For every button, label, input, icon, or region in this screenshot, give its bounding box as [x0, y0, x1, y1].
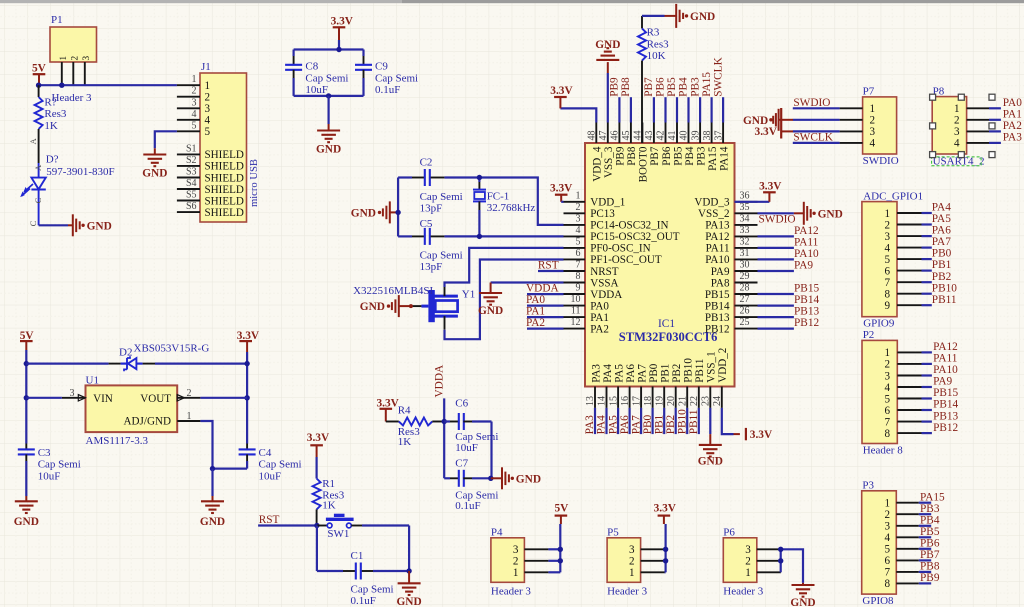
svg-text:PB1: PB1	[660, 364, 672, 383]
junction ADJ/GND node	[210, 466, 215, 471]
svg-text:5V: 5V	[555, 503, 570, 515]
capacitor C8	[285, 50, 302, 96]
svg-text:J1: J1	[201, 61, 211, 73]
crystal Y1 X322516MLB4SI	[411, 287, 458, 330]
junction 3.3V/D2	[244, 361, 249, 366]
designator P6	[723, 527, 735, 539]
ground GND (C7)	[502, 467, 541, 489]
svg-text:C7: C7	[455, 457, 468, 469]
selection box USART4_2	[932, 157, 982, 166]
net label PA9 (P2 pin4)	[933, 376, 952, 388]
svg-text:7: 7	[884, 277, 890, 289]
wire Y1 top to IC1 pin5	[445, 248, 564, 287]
svg-text:4: 4	[884, 532, 890, 544]
svg-text:PA1: PA1	[590, 312, 609, 324]
svg-text:Cap Semi: Cap Semi	[351, 583, 394, 595]
svg-text:PB4: PB4	[920, 514, 940, 526]
wire PA4 stub (IC1 pin14)	[605, 408, 607, 434]
svg-text:23: 23	[701, 396, 712, 406]
svg-text:2: 2	[192, 86, 197, 97]
svg-text:X322516MLB4SI: X322516MLB4SI	[353, 285, 433, 297]
ground GND (LED)	[73, 214, 112, 236]
net label PB8 (P3 pin7)	[920, 561, 940, 573]
wire VSS_2 to GND (IC1 pin35)	[758, 212, 804, 214]
svg-text:Cap Semi: Cap Semi	[375, 72, 418, 84]
svg-text:0.1uF: 0.1uF	[351, 595, 376, 607]
svg-text:1K: 1K	[44, 120, 58, 132]
value XBS053V15R-G	[134, 343, 210, 355]
junction 5V/D2	[24, 361, 29, 366]
net label PA5 (ADC_GPIO1 pin2)	[932, 213, 951, 225]
value 13pF (C5)	[420, 261, 443, 273]
svg-text:29: 29	[740, 271, 750, 282]
wire 3.3V rail (P5)	[664, 524, 666, 572]
svg-text:9: 9	[884, 300, 890, 312]
wire PA1 stub (P8 pin2)	[989, 119, 1001, 121]
connector P5	[607, 538, 666, 583]
value Header 3 (P1)	[52, 92, 93, 104]
net label PA7	[630, 415, 642, 434]
wire C6 right leg	[490, 422, 492, 479]
wire 3.3V stem to top rail	[338, 40, 340, 50]
value Cap Semi (C2)	[420, 191, 463, 203]
net label PA5	[607, 415, 619, 434]
wire PB4 stub (IC1 pin40)	[687, 97, 689, 122]
svg-text:2: 2	[187, 388, 192, 399]
svg-text:5: 5	[205, 126, 211, 138]
net label PB6	[655, 77, 667, 97]
svg-text:S2: S2	[186, 155, 197, 166]
svg-text:14: 14	[597, 396, 608, 406]
net label PB5	[666, 77, 678, 97]
net label SWCLK (P7)	[793, 131, 833, 143]
wire PA2 stub (IC1 pin12)	[527, 328, 564, 330]
svg-text:PB14: PB14	[705, 300, 730, 312]
svg-text:8: 8	[884, 289, 890, 301]
svg-text:VDDA: VDDA	[526, 283, 559, 295]
svg-text:GND: GND	[690, 11, 715, 23]
net label PA9	[794, 260, 813, 272]
svg-text:2: 2	[884, 509, 890, 521]
svg-text:PC15-OSC32_OUT: PC15-OSC32_OUT	[590, 231, 680, 243]
value Cap Semi (C6)	[455, 431, 498, 443]
wire PA3 stub (IC1 pin13)	[594, 408, 596, 434]
svg-text:GND: GND	[351, 208, 376, 220]
net label VDDA (IC1 pin9)	[526, 283, 559, 295]
svg-text:1: 1	[884, 208, 890, 220]
svg-text:VOUT: VOUT	[140, 393, 171, 405]
designator R?	[44, 96, 56, 108]
svg-text:4: 4	[884, 382, 890, 394]
svg-text:PB11: PB11	[694, 359, 706, 383]
svg-text:41: 41	[667, 131, 678, 141]
svg-text:3: 3	[70, 388, 75, 399]
value USART4_2 (P8)	[933, 155, 985, 167]
svg-text:9: 9	[576, 283, 581, 294]
svg-text:PB2: PB2	[665, 414, 677, 434]
svg-text:PB8: PB8	[626, 146, 638, 166]
svg-text:PA15: PA15	[701, 72, 713, 97]
svg-text:GND: GND	[396, 596, 421, 607]
svg-text:3: 3	[745, 544, 751, 556]
svg-text:2: 2	[870, 115, 876, 127]
ground GND (OSC32)	[351, 201, 398, 223]
junction 5V/VIN	[24, 395, 29, 400]
svg-text:34: 34	[740, 214, 750, 225]
svg-text:3: 3	[870, 126, 876, 138]
designator C8	[305, 61, 318, 73]
svg-text:PB5: PB5	[920, 526, 940, 538]
designator J1	[201, 61, 211, 73]
svg-text:1: 1	[954, 103, 960, 115]
svg-text:PA3: PA3	[1003, 132, 1022, 144]
designator P2	[863, 329, 875, 341]
svg-text:micro USB: micro USB	[249, 159, 260, 207]
net label PB11	[688, 410, 700, 435]
svg-text:11: 11	[571, 306, 581, 317]
svg-text:PA9: PA9	[933, 376, 952, 388]
svg-text:13: 13	[585, 396, 596, 406]
net label PA6	[619, 415, 631, 434]
svg-text:P3: P3	[862, 479, 874, 491]
power port 3.3V (IC1 pin48)	[550, 85, 596, 122]
svg-text:5V: 5V	[32, 63, 47, 75]
svg-text:19: 19	[654, 396, 665, 406]
svg-text:3.3V: 3.3V	[750, 429, 773, 441]
svg-text:ADJ/GND: ADJ/GND	[124, 416, 171, 428]
value 0.1uF (C1)	[351, 595, 376, 607]
svg-text:Cap Semi: Cap Semi	[259, 459, 302, 471]
wire bottom rail C8-C9	[294, 95, 364, 97]
svg-text:4: 4	[192, 109, 197, 120]
resistor R?	[35, 85, 43, 163]
net label SWDIO (IC1 pin34)	[759, 213, 796, 225]
svg-text:1: 1	[576, 190, 581, 201]
capacitor C5	[412, 228, 444, 245]
net label PA0 (P8)	[1003, 97, 1022, 109]
junction P5 pin2	[663, 558, 668, 563]
wire VSSA to GND (IC1 pin8)	[491, 283, 564, 294]
net label PB3 (P3 pin2)	[920, 503, 940, 515]
svg-text:39: 39	[690, 131, 701, 141]
value Res3 (R4)	[398, 426, 421, 438]
designator C7	[455, 457, 468, 469]
svg-text:VSS_1: VSS_1	[706, 351, 718, 382]
svg-text:Res3: Res3	[647, 38, 670, 50]
svg-text:PB15: PB15	[794, 283, 819, 295]
resistor R3	[638, 16, 646, 143]
svg-text:35: 35	[740, 202, 750, 213]
svg-text:2: 2	[745, 556, 751, 568]
svg-text:GND: GND	[87, 220, 112, 232]
svg-text:2: 2	[884, 219, 890, 231]
net label PB6 (P3 pin5)	[920, 537, 940, 549]
svg-text:D2: D2	[119, 347, 132, 359]
svg-text:PA10: PA10	[794, 248, 819, 260]
svg-text:PC14-OSC32_IN: PC14-OSC32_IN	[590, 220, 668, 232]
svg-text:PA1: PA1	[1003, 108, 1022, 120]
wire PA10 stub (IC1 pin31)	[758, 258, 794, 260]
svg-text:PB2: PB2	[932, 271, 952, 283]
svg-text:C3: C3	[38, 447, 51, 459]
connector P4	[491, 538, 560, 583]
svg-text:S6: S6	[186, 201, 197, 212]
svg-text:4: 4	[870, 138, 876, 150]
ground GND (IC1 VSS_1)	[698, 445, 723, 468]
svg-text:PA2: PA2	[590, 323, 609, 335]
net label PA1 (P8)	[1003, 108, 1022, 120]
svg-text:PA7: PA7	[932, 236, 951, 248]
junction FC-1 top	[477, 175, 482, 180]
connector P1	[50, 27, 97, 85]
wire PB1 stub (IC1 pin19)	[663, 408, 665, 434]
svg-text:PB13: PB13	[794, 306, 819, 318]
svg-text:PB6: PB6	[920, 537, 940, 549]
wire GND stem (U1)	[211, 469, 213, 502]
net label PB9 (P3 pin8)	[920, 572, 940, 584]
junction 3.3V/VOUT	[244, 395, 249, 400]
svg-text:6: 6	[884, 265, 890, 277]
svg-text:2: 2	[70, 56, 80, 61]
value 1K (R1)	[322, 500, 336, 512]
ground GND (P6)	[790, 585, 815, 607]
capacitor C4	[239, 444, 256, 469]
svg-text:SWDIO: SWDIO	[759, 213, 796, 225]
connector P6	[723, 538, 781, 583]
designator P8	[933, 85, 945, 97]
net label PB7	[643, 77, 655, 97]
svg-text:1: 1	[629, 567, 635, 579]
net label PB0 (ADC_GPIO1 pin5)	[932, 248, 952, 260]
svg-text:GND: GND	[360, 301, 385, 313]
value Header 8 (P2)	[863, 444, 904, 456]
wire LED cathode to GND	[39, 224, 73, 226]
svg-text:21: 21	[677, 396, 688, 406]
designator FC-1	[487, 190, 510, 202]
value 597-3901-830F	[46, 166, 114, 178]
svg-text:PF0-OSC_IN: PF0-OSC_IN	[590, 243, 650, 255]
net label PA10	[794, 248, 819, 260]
value Cap Semi (C1)	[351, 583, 394, 595]
svg-text:24: 24	[712, 396, 723, 406]
net label PA0 (IC1 pin10)	[526, 294, 545, 306]
svg-text:13pF: 13pF	[420, 261, 443, 273]
pin letter A (LED anode)	[33, 164, 43, 171]
regulator U1 AMS1117-3.3	[62, 385, 201, 432]
svg-text:1: 1	[205, 80, 211, 92]
wire PB14 stub (IC1 pin27)	[758, 305, 794, 307]
svg-text:PB6: PB6	[655, 77, 667, 97]
junction P5 pin3	[663, 547, 668, 552]
svg-text:R1: R1	[322, 478, 335, 490]
net label PB15	[794, 283, 819, 295]
junction R4/VDDA	[442, 419, 447, 424]
svg-text:PA11: PA11	[794, 237, 818, 249]
wire J1 pin5 to GND	[155, 131, 177, 154]
wire PA15 stub (IC1 pin38)	[710, 97, 712, 122]
svg-text:2: 2	[513, 556, 519, 568]
svg-text:PA12: PA12	[705, 231, 729, 243]
connector P3	[862, 491, 932, 594]
pin letter C (LED cathode)	[33, 197, 43, 203]
svg-text:U1: U1	[86, 374, 99, 386]
svg-text:SWCLK: SWCLK	[793, 131, 833, 143]
wire PB10 stub (IC1 pin21)	[686, 408, 688, 434]
svg-text:PB14: PB14	[933, 399, 958, 411]
wire PA2 stub (P8 pin3)	[989, 130, 1001, 132]
svg-text:PA3: PA3	[590, 364, 602, 383]
svg-text:GND: GND	[200, 516, 225, 528]
ground GND (Y1)	[360, 295, 413, 317]
wire ADJ/GND to GND node	[200, 421, 212, 469]
ground GND (C1)	[396, 583, 421, 607]
svg-text:VDDA: VDDA	[433, 364, 445, 397]
svg-text:C2: C2	[420, 156, 433, 168]
wire 5V to VIN	[26, 397, 62, 399]
wire SWDIO to P7 pin1	[793, 107, 840, 109]
svg-text:SHIELD: SHIELD	[205, 161, 244, 173]
svg-text:4: 4	[884, 242, 890, 254]
svg-text:Header 3: Header 3	[723, 586, 764, 598]
svg-text:7: 7	[576, 260, 581, 271]
svg-text:PA12: PA12	[794, 225, 819, 237]
svg-text:3: 3	[884, 231, 890, 243]
svg-text:42: 42	[656, 131, 667, 141]
net label PB12	[794, 317, 819, 329]
svg-text:PB0: PB0	[932, 248, 952, 260]
wire GND stem (C1)	[408, 571, 410, 583]
svg-text:5: 5	[192, 120, 197, 131]
microcontroller IC1 STM32F030CCT6	[564, 123, 758, 408]
svg-text:PB8: PB8	[620, 77, 632, 97]
wire GND stem (P6)	[802, 583, 804, 585]
net label PB2 (ADC_GPIO1 pin7)	[932, 271, 952, 283]
power port 5V (top left)	[32, 63, 47, 86]
svg-text:7: 7	[884, 567, 890, 579]
svg-text:VSS_3: VSS_3	[603, 146, 615, 178]
svg-text:3.3V: 3.3V	[331, 16, 354, 28]
svg-text:AMS1117-3.3: AMS1117-3.3	[86, 435, 149, 447]
svg-text:PB10: PB10	[676, 409, 688, 434]
designator P3	[862, 479, 874, 491]
svg-text:31: 31	[740, 248, 750, 259]
svg-text:R3: R3	[647, 27, 660, 39]
svg-text:PB2: PB2	[671, 364, 683, 383]
capacitor C7	[444, 470, 491, 487]
net label RST (SW1)	[259, 514, 280, 526]
wire PB2 stub (IC1 pin20)	[675, 408, 677, 434]
svg-text:Res3: Res3	[44, 108, 67, 120]
svg-text:PA5: PA5	[932, 213, 951, 225]
svg-text:PA5: PA5	[613, 364, 625, 383]
net label PB3	[689, 77, 701, 97]
ground GND (U1)	[200, 501, 225, 528]
net label PA1 (IC1 pin11)	[526, 306, 545, 318]
svg-text:10uF: 10uF	[259, 470, 282, 482]
svg-text:8: 8	[884, 428, 890, 440]
svg-text:PA9: PA9	[711, 266, 730, 278]
svg-text:16: 16	[620, 396, 631, 406]
pin letter C (wire end)	[28, 220, 38, 226]
svg-text:PA4: PA4	[932, 202, 951, 214]
designator SW1	[327, 528, 349, 540]
net label PB10	[676, 409, 688, 434]
svg-text:10K: 10K	[647, 50, 666, 62]
designator R1	[322, 478, 335, 490]
value 1K (R?)	[44, 120, 58, 132]
svg-text:8: 8	[884, 578, 890, 590]
svg-text:PB3: PB3	[695, 146, 707, 166]
svg-text:3.3V: 3.3V	[759, 180, 782, 192]
svg-text:NRST: NRST	[590, 266, 619, 278]
svg-text:10uF: 10uF	[305, 84, 328, 96]
svg-text:6: 6	[576, 248, 581, 259]
power port 3.3V (IC1 pin1)	[550, 183, 573, 202]
capacitor C3	[18, 444, 35, 497]
svg-text:17: 17	[631, 396, 642, 406]
value GPIO9 (ADC_GPIO1)	[863, 318, 895, 330]
junction at 5V stem	[36, 83, 41, 88]
svg-text:VSS_2: VSS_2	[698, 208, 729, 220]
ground GND (J1 shield)	[142, 155, 167, 180]
svg-text:3: 3	[513, 544, 519, 556]
svg-text:SW1: SW1	[327, 528, 349, 540]
svg-text:2: 2	[884, 359, 890, 371]
power port 5V (regulator)	[20, 330, 35, 350]
svg-text:IC1: IC1	[658, 318, 675, 330]
svg-text:P5: P5	[607, 527, 619, 539]
diode D2 XBS053V15R-G	[109, 356, 155, 371]
svg-text:3: 3	[81, 56, 91, 61]
svg-text:PA7: PA7	[636, 364, 648, 383]
svg-text:GPIO8: GPIO8	[862, 595, 894, 607]
connector P7	[840, 97, 897, 154]
svg-text:C4: C4	[259, 447, 272, 459]
designator R3	[647, 27, 660, 39]
designator C2	[420, 156, 433, 168]
svg-text:PA4: PA4	[596, 415, 608, 434]
svg-text:3: 3	[205, 103, 211, 115]
net label PB10 (ADC_GPIO1 pin8)	[932, 282, 957, 294]
junction FC-1 bottom	[477, 234, 482, 239]
svg-text:PA4: PA4	[602, 364, 614, 383]
svg-text:PB5: PB5	[666, 77, 678, 97]
selection handles (P8)	[930, 94, 995, 157]
svg-text:PB5: PB5	[672, 146, 684, 166]
net label PA3 (P8)	[1003, 132, 1022, 144]
svg-text:Cap Semi: Cap Semi	[420, 191, 463, 203]
svg-text:PB0: PB0	[648, 363, 660, 383]
net label PB1	[653, 415, 665, 434]
designator Y1	[462, 289, 475, 301]
value 10K (R3)	[647, 50, 666, 62]
designator U1	[86, 374, 99, 386]
power port 3.3V (R4)	[377, 397, 400, 421]
wire RST stub (IC1 pin7)	[538, 270, 564, 272]
junction P4 pin2	[558, 558, 563, 563]
junction bottom rail/GND	[326, 93, 331, 98]
value Cap Semi (C9)	[375, 72, 418, 84]
svg-text:3.3V: 3.3V	[654, 503, 677, 515]
svg-text:GPIO9: GPIO9	[863, 318, 895, 330]
junction C1/GND	[406, 568, 411, 573]
net label PA10 (P2 pin3)	[933, 364, 958, 376]
net label PA3	[584, 415, 596, 434]
svg-text:8: 8	[576, 271, 581, 282]
svg-text:38: 38	[702, 131, 713, 141]
svg-text:PA6: PA6	[625, 364, 637, 383]
svg-text:40: 40	[679, 131, 690, 141]
